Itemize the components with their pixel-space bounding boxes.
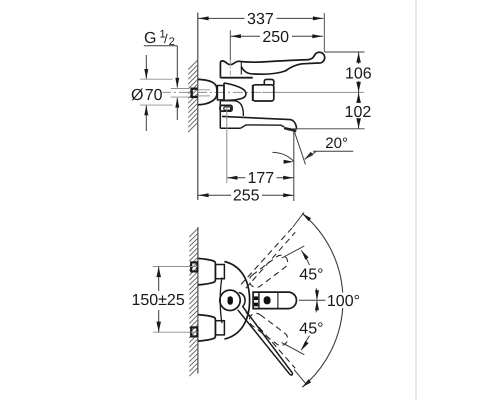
svg-text:45°: 45° bbox=[299, 267, 323, 284]
svg-text:102: 102 bbox=[345, 104, 372, 121]
svg-text:Ø 70: Ø 70 bbox=[131, 87, 163, 104]
svg-text:G: G bbox=[144, 30, 156, 47]
svg-text:255: 255 bbox=[233, 188, 260, 205]
svg-text:337: 337 bbox=[247, 11, 274, 28]
svg-text:45°: 45° bbox=[299, 321, 323, 338]
svg-text:177: 177 bbox=[247, 170, 274, 187]
svg-text:250: 250 bbox=[262, 29, 289, 46]
svg-text:150±25: 150±25 bbox=[131, 292, 184, 309]
svg-text:/: / bbox=[164, 31, 168, 46]
svg-text:20°: 20° bbox=[325, 135, 348, 152]
svg-text:106: 106 bbox=[345, 66, 372, 83]
svg-text:100°: 100° bbox=[327, 293, 360, 310]
